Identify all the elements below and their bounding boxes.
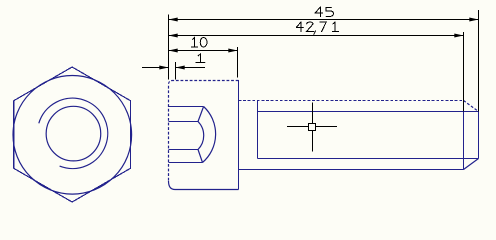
- shaft hidden chamfer diagonal: [464, 101, 479, 112]
- crosshair pickbox: [309, 124, 316, 131]
- dim text 42,71 : digit 4: [296, 22, 303, 32]
- side view head right edge: [238, 80, 240, 189]
- bolt head front view: hexagon: [14, 67, 131, 202]
- head facet line B upper: [169, 121, 199, 123]
- dimension line 10: [169, 50, 238, 52]
- arrow 42,71 right: [454, 34, 463, 38]
- head facet inner diagonal bottom: [198, 150, 203, 163]
- arrow 1 outside-right: [176, 66, 185, 70]
- dimension line 1 right tail: [176, 67, 206, 69]
- dim text 45 : digit 5: [326, 7, 333, 16]
- arrow 45 left: [169, 18, 178, 22]
- shaft inner bottom line: [258, 158, 479, 160]
- dim text 42,71 : digit 7: [320, 22, 326, 31]
- arrow 1 outside-left: [159, 66, 168, 70]
- head facet inner arc: [198, 122, 204, 150]
- crosshair cursor horizontal: [287, 126, 337, 128]
- side view head outline solid bottom-left fillet: [169, 181, 239, 190]
- head facet line C: [169, 162, 203, 164]
- dim text 45 : digit 4: [315, 7, 323, 17]
- arrow 45 right: [469, 18, 478, 22]
- shaft chamfer start vertical: [463, 112, 465, 170]
- shaft bottom chamfer diagonal: [464, 159, 479, 170]
- extension line x=1mm: [175, 62, 177, 80]
- extension line 10 right: [237, 47, 239, 78]
- side view head outline dashed top-left: [169, 81, 239, 182]
- extension line 42,71 right: [463, 32, 465, 112]
- head facet inner diagonal top: [198, 107, 204, 122]
- dim text 10 : digit 0: [200, 38, 207, 48]
- dim text 10 : digit 1: [191, 38, 197, 48]
- extension line left shared: [168, 15, 170, 80]
- arrow 10 left: [169, 49, 178, 53]
- dim text 42,71 : comma: [314, 31, 316, 35]
- bolt front view: shank circle: [46, 106, 101, 161]
- shaft hidden top line: [239, 100, 464, 102]
- dimension line 45: [169, 19, 479, 21]
- extension line 45 right: [478, 10, 480, 112]
- arrow 10 right: [228, 49, 237, 53]
- crosshair cursor vertical: [312, 103, 314, 152]
- bolt head front view: chamfer circle: [13, 76, 132, 195]
- arrow 42,71 left: [169, 34, 178, 38]
- head facet line B lower: [169, 149, 199, 151]
- dim text 42,71 : digit 2: [307, 22, 314, 32]
- head facet line A: [169, 106, 204, 108]
- shaft outer bottom line: [239, 169, 464, 171]
- head facet outer arc: [203, 107, 216, 163]
- shaft inner left edge: [257, 101, 259, 159]
- dim text 1 : digit 1: [196, 54, 205, 63]
- dim text 42,71 : digit 1: [332, 22, 338, 31]
- shaft right end face: [478, 112, 480, 159]
- dimension line 42,71: [169, 35, 464, 37]
- dimension line 1 left tail: [142, 67, 169, 69]
- bolt front view: thread arc: [39, 98, 108, 168]
- shaft inner top line: [258, 111, 479, 113]
